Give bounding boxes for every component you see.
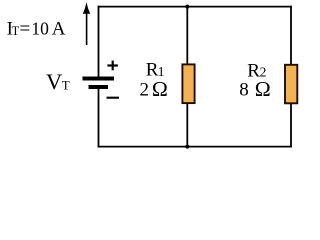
svg-text:10: 10 bbox=[31, 18, 49, 38]
wire: top horizontal (battery + node to R1/R2 tops) bbox=[98, 6, 292, 8]
svg-text:V: V bbox=[46, 69, 62, 94]
svg-text:T: T bbox=[62, 78, 70, 93]
current direction arrow (upward, next to left wire) bbox=[83, 2, 90, 45]
wire: bottom horizontal (battery - node to R1/R2 bottoms) bbox=[98, 146, 292, 148]
svg-text:=: = bbox=[20, 19, 31, 40]
svg-text:T: T bbox=[12, 24, 20, 38]
battery polarity: minus sign bbox=[107, 97, 120, 99]
battery VT: long positive plate bbox=[83, 77, 115, 81]
label R1 bbox=[146, 60, 165, 81]
wire: left vertical upper (battery + terminal up to top rail) bbox=[98, 6, 100, 77]
label 2 ohms (R1 value) bbox=[140, 77, 168, 101]
battery polarity: plus sign bbox=[107, 61, 118, 71]
junction node: bottom rail at middle branch bbox=[185, 145, 189, 149]
svg-text:A: A bbox=[52, 19, 66, 40]
svg-text:Ω: Ω bbox=[255, 77, 271, 101]
label VT (source voltage) bbox=[46, 69, 70, 94]
label IT = 10 A (total current) bbox=[7, 18, 66, 39]
resistor R1 (orange box element) bbox=[182, 64, 194, 103]
resistor R2 (orange box element) bbox=[285, 65, 297, 104]
svg-text:8: 8 bbox=[239, 80, 249, 101]
label R2 bbox=[247, 60, 266, 81]
svg-text:Ω: Ω bbox=[152, 77, 168, 101]
battery VT: short negative plate bbox=[89, 85, 109, 89]
label 8 ohms (R2 value) bbox=[239, 77, 270, 101]
wire: middle vertical upper (top rail to R1 top lead) bbox=[186, 6, 188, 65]
wire: right vertical upper (top rail to R2 top lead) bbox=[290, 6, 292, 66]
svg-text:2: 2 bbox=[140, 80, 150, 101]
wire: right vertical lower (R2 bottom lead to bottom rail) bbox=[290, 103, 292, 148]
wire: middle vertical lower (R1 bottom lead to bottom rail) bbox=[186, 103, 188, 148]
wire: left vertical lower (battery - terminal down to bottom rail) bbox=[98, 88, 100, 148]
junction node: top rail at middle branch bbox=[185, 5, 189, 9]
